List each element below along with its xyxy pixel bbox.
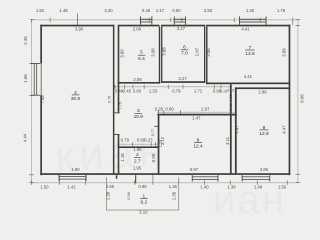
svg-text:13.6: 13.6: [245, 51, 255, 57]
svg-text:0.98: 0.98: [127, 192, 131, 199]
svg-text:12.4: 12.4: [193, 144, 203, 150]
svg-text:2.65: 2.65: [106, 184, 115, 189]
svg-text:5: 5: [140, 50, 143, 56]
svg-text:0.90: 0.90: [165, 106, 174, 111]
svg-text:7.98: 7.98: [40, 95, 45, 104]
svg-text:4.47: 4.47: [235, 125, 240, 134]
svg-text:0.15: 0.15: [220, 90, 227, 94]
svg-text:2.08: 2.08: [133, 77, 142, 82]
svg-text:2.36: 2.36: [23, 36, 28, 45]
svg-text:0.60: 0.60: [133, 89, 142, 94]
svg-text:4.44: 4.44: [23, 133, 28, 142]
svg-text:5.97: 5.97: [190, 167, 199, 172]
svg-text:6.4: 6.4: [138, 56, 145, 62]
svg-text:4.41: 4.41: [241, 27, 250, 32]
svg-text:1.42: 1.42: [67, 184, 76, 189]
svg-text:1.75: 1.75: [118, 102, 122, 109]
svg-text:3.08: 3.08: [282, 48, 287, 57]
svg-text:0.28: 0.28: [155, 106, 164, 111]
svg-text:3.10: 3.10: [139, 209, 148, 214]
svg-text:1.36: 1.36: [171, 191, 176, 200]
svg-text:2.86: 2.86: [258, 89, 267, 94]
svg-text:4.41: 4.41: [244, 74, 253, 79]
svg-text:3.27: 3.27: [177, 26, 186, 31]
svg-text:1.59: 1.59: [278, 184, 287, 189]
svg-text:1.40: 1.40: [246, 8, 255, 13]
svg-text:6.2: 6.2: [140, 200, 147, 206]
svg-text:0.60: 0.60: [172, 8, 181, 13]
svg-text:3.27: 3.27: [178, 76, 187, 81]
svg-text:1.76: 1.76: [277, 8, 286, 13]
svg-text:2.87: 2.87: [195, 47, 200, 56]
svg-text:2.7: 2.7: [134, 158, 141, 164]
svg-text:3.11: 3.11: [225, 136, 230, 145]
svg-text:1.90: 1.90: [71, 167, 80, 172]
svg-text:1.95: 1.95: [133, 166, 142, 171]
svg-text:0.48: 0.48: [142, 8, 151, 13]
svg-text:1.48: 1.48: [59, 8, 68, 13]
svg-text:иан: иан: [213, 178, 286, 222]
svg-text:2.86: 2.86: [260, 167, 269, 172]
svg-text:2.08: 2.08: [133, 27, 142, 32]
svg-text:12.8: 12.8: [259, 131, 269, 137]
svg-text:1.38: 1.38: [227, 184, 236, 189]
svg-text:1.17: 1.17: [156, 8, 165, 13]
svg-text:0.98: 0.98: [138, 184, 147, 189]
svg-text:7.0: 7.0: [181, 50, 188, 56]
svg-text:1.36: 1.36: [169, 184, 178, 189]
svg-text:1.66: 1.66: [23, 74, 28, 83]
svg-text:1.40: 1.40: [200, 184, 209, 189]
svg-text:1.48: 1.48: [254, 184, 263, 189]
svg-text:0.79: 0.79: [172, 89, 181, 94]
svg-text:0.23: 0.23: [144, 137, 153, 142]
svg-text:1.38: 1.38: [106, 191, 111, 200]
svg-text:0.98: 0.98: [151, 153, 156, 162]
svg-text:10.9: 10.9: [134, 114, 144, 120]
svg-text:0.59: 0.59: [229, 95, 233, 102]
svg-text:1.13: 1.13: [159, 140, 163, 147]
svg-text:0.79: 0.79: [121, 137, 130, 142]
svg-text:3.08: 3.08: [161, 47, 166, 56]
svg-text:2.83: 2.83: [204, 8, 213, 13]
svg-text:3.90: 3.90: [75, 27, 84, 32]
svg-text:1.47: 1.47: [192, 116, 201, 121]
svg-text:0.32: 0.32: [229, 104, 233, 111]
svg-text:4.47: 4.47: [282, 125, 287, 134]
svg-text:3.09: 3.09: [120, 49, 125, 58]
svg-text:1.71: 1.71: [194, 89, 203, 94]
svg-text:0.45: 0.45: [123, 89, 132, 94]
svg-text:1.33: 1.33: [149, 89, 158, 94]
svg-text:3.08: 3.08: [206, 48, 211, 57]
svg-text:3.08: 3.08: [151, 48, 156, 57]
svg-text:0.15: 0.15: [227, 89, 234, 93]
svg-text:3.40: 3.40: [104, 8, 113, 13]
svg-text:1.81: 1.81: [36, 8, 45, 13]
svg-text:0.75: 0.75: [108, 96, 112, 103]
svg-text:1.16: 1.16: [120, 153, 125, 162]
svg-text:1.95: 1.95: [133, 147, 142, 152]
svg-text:1.50: 1.50: [40, 184, 49, 189]
svg-text:30.6: 30.6: [71, 96, 81, 102]
svg-text:2.97: 2.97: [201, 106, 210, 111]
svg-text:0.77: 0.77: [151, 129, 155, 136]
svg-text:8.06: 8.06: [300, 94, 305, 103]
